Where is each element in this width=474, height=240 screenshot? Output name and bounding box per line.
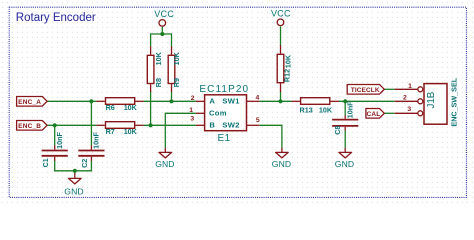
svg-text:10K: 10K	[172, 51, 181, 65]
wire R8 down to ENC_B line	[150, 92, 152, 126]
svg-text:Com: Com	[209, 108, 227, 117]
junction R9 ENC_A	[169, 99, 173, 103]
wire R12 top to VCC	[280, 27, 282, 46]
svg-text:C1: C1	[41, 158, 50, 167]
svg-text:10K: 10K	[283, 54, 292, 68]
svg-text:3: 3	[407, 106, 411, 113]
svg-text:R8: R8	[154, 78, 163, 87]
capacitor C1	[41, 132, 68, 168]
resistor R13	[291, 98, 339, 115]
global label CAL	[366, 109, 384, 119]
wire C2 bottom	[90, 161, 92, 171]
svg-text:GND: GND	[64, 186, 83, 196]
svg-text:TICECLK: TICECLK	[351, 87, 380, 94]
svg-text:C2: C2	[80, 159, 89, 168]
svg-text:VCC: VCC	[154, 9, 174, 19]
svg-text:A: A	[209, 96, 215, 105]
svg-text:2: 2	[403, 95, 407, 102]
svg-text:10nF: 10nF	[91, 132, 100, 149]
junction ENC_A C2	[89, 99, 93, 103]
junction C8 tap	[343, 99, 347, 103]
svg-text:GND: GND	[272, 159, 291, 169]
wire R6 to pin A	[144, 100, 196, 102]
wire CAL to pin3	[384, 112, 394, 114]
svg-text:1: 1	[189, 107, 193, 114]
wire VCC bracket to R8 R9	[151, 34, 172, 47]
ground under Com	[155, 148, 174, 170]
svg-text:10K: 10K	[124, 127, 138, 136]
capacitor C8	[332, 101, 358, 135]
wire R9 down to ENC_A line	[171, 92, 173, 102]
wire TICECLK to pin1	[384, 88, 394, 90]
svg-text:2: 2	[191, 95, 195, 102]
svg-text:R6: R6	[106, 103, 115, 112]
resistor R7	[96, 122, 143, 137]
global label ENC_B	[17, 121, 47, 131]
svg-text:GND: GND	[335, 159, 354, 169]
wire VCC stem	[161, 27, 163, 34]
svg-text:CAL: CAL	[367, 111, 381, 118]
svg-text:ENC_B: ENC_B	[18, 123, 41, 130]
wire bottom bus C1 to C2	[54, 170, 92, 172]
svg-text:E1: E1	[218, 133, 231, 144]
svg-text:C8: C8	[333, 126, 342, 135]
ground under C1 C2	[64, 171, 83, 197]
svg-text:1: 1	[408, 83, 412, 90]
wire R13 to C8 junction to connector pin2	[339, 100, 395, 102]
junction R8 ENC_B	[149, 123, 153, 127]
svg-text:GND: GND	[155, 159, 174, 169]
svg-text:Rotary Encoder: Rotary Encoder	[16, 12, 96, 24]
wire C1 bottom	[54, 161, 56, 171]
svg-text:EC11P20: EC11P20	[199, 84, 249, 95]
svg-text:10nF: 10nF	[345, 101, 354, 118]
svg-text:B: B	[209, 121, 215, 130]
power VCC right	[271, 9, 291, 26]
svg-text:10nF: 10nF	[55, 132, 64, 149]
junction R12 pin4	[278, 99, 282, 103]
svg-text:10K: 10K	[154, 51, 163, 65]
sheet border	[9, 7, 466, 197]
resistor R12	[277, 45, 292, 92]
junction ENC_B C1	[53, 123, 57, 127]
svg-text:R12: R12	[283, 69, 292, 82]
junction on VCC bracket	[160, 32, 164, 36]
svg-text:VCC: VCC	[271, 9, 291, 19]
svg-text:3: 3	[190, 115, 194, 122]
wire C2 drop from ENC_A line	[90, 101, 92, 145]
svg-text:10K: 10K	[124, 103, 138, 112]
svg-text:10K: 10K	[319, 106, 333, 115]
wire ENC_A to R6	[47, 100, 96, 102]
svg-text:R7: R7	[106, 127, 115, 136]
ground under pin5	[272, 148, 291, 170]
svg-text:4: 4	[256, 94, 260, 101]
wire pin5 to GND drop	[259, 125, 282, 147]
global label ENC_A	[17, 97, 47, 107]
capacitor C2	[78, 132, 104, 168]
power VCC left	[154, 9, 174, 26]
svg-text:ENC_A: ENC_A	[18, 99, 41, 106]
svg-text:5: 5	[256, 117, 260, 124]
ground under C8	[335, 148, 354, 169]
wire C8 bottom to GND	[344, 131, 346, 148]
resistor R8	[147, 47, 163, 93]
resistor R9	[168, 47, 181, 93]
rotary encoder E1	[189, 84, 260, 144]
junction bottom GND	[73, 169, 77, 173]
svg-text:R9: R9	[172, 78, 181, 87]
wire Com pin to GND drop	[165, 113, 196, 147]
svg-text:ENC_SW_SEL: ENC_SW_SEL	[449, 77, 458, 126]
svg-text:SW2: SW2	[222, 121, 239, 130]
svg-text:J1B: J1B	[426, 91, 437, 108]
svg-text:SW1: SW1	[222, 96, 240, 105]
wire R12 bottom	[280, 92, 282, 102]
global label TICECLK	[347, 85, 384, 95]
wire C1 drop from ENC_B line	[54, 125, 56, 145]
wire R7 to pin B	[144, 124, 196, 126]
connector J1B	[395, 77, 459, 126]
svg-text:R13: R13	[300, 106, 313, 115]
resistor R6	[96, 98, 143, 112]
wire ENC_B to R7	[47, 124, 96, 126]
wire C8 top lead	[344, 101, 346, 115]
wire pin4 to R12 junction	[259, 100, 291, 102]
